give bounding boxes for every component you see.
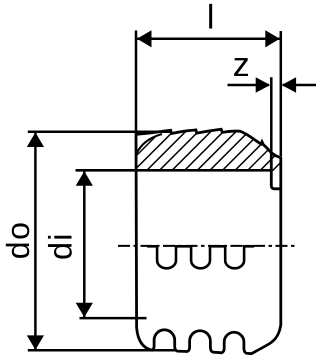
dim l : left arrowhead: [137, 30, 152, 47]
bore line (di top edge, extended left as di extension line): [76, 169, 272, 172]
svg-text:di: di: [43, 232, 79, 260]
svg-text:do: do: [0, 221, 36, 260]
counterbore at right end: [271, 152, 281, 189]
dim z : left arrowhead: [256, 77, 271, 93]
serration runout arc at left end: [137, 134, 162, 154]
dim l : dimension line: [137, 38, 280, 41]
dim di : dimension line: [83, 172, 86, 318]
dim l : extension line right: [280, 31, 283, 156]
dim di : top arrowhead: [76, 171, 93, 186]
serration profile at centerline (three U slots): [147, 246, 254, 268]
dim l : extension line left: [135, 31, 138, 132]
dim l : right arrowhead: [265, 30, 280, 47]
dim z : left tail: [228, 84, 270, 87]
label z: [233, 46, 250, 84]
dim z : right tail: [283, 84, 316, 87]
dim di : bottom arrowhead: [76, 303, 93, 318]
dim z : extension line (counterbore wall extended up): [270, 77, 273, 152]
dim do : dimension line: [34, 133, 37, 349]
dim z : right arrowhead: [282, 77, 297, 93]
hatching (section lines): [72, 125, 320, 195]
dim do : top extension line: [28, 130, 170, 133]
dim di : bottom extension line: [80, 317, 147, 320]
part outline: [136, 129, 281, 353]
label l: [207, 0, 215, 36]
dim do : bottom extension line: [28, 349, 176, 352]
svg-text:z: z: [233, 46, 250, 84]
svg-text:l: l: [207, 0, 215, 36]
dim do : top arrowhead: [27, 132, 44, 147]
centerline (dash-dot): [118, 245, 297, 247]
dim do : bottom arrowhead: [27, 335, 44, 349]
